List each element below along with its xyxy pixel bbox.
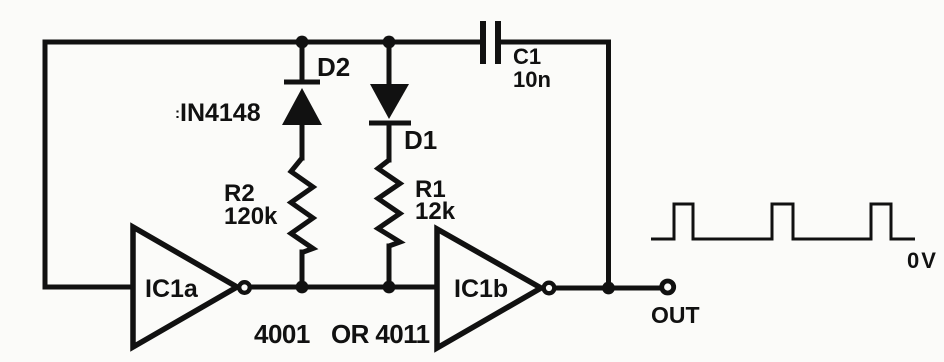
svg-text:D2: D2 xyxy=(317,52,350,82)
wire D1 bottom lead xyxy=(387,123,392,160)
wire right vertical xyxy=(606,42,611,288)
svg-text:IN4148: IN4148 xyxy=(180,99,261,127)
resistor R2 xyxy=(291,158,313,253)
svg-text:C1: C1 xyxy=(513,44,541,69)
svg-text:D1: D1 xyxy=(404,125,437,155)
wire D2 bottom lead xyxy=(300,125,305,158)
svg-text:12k: 12k xyxy=(415,198,456,225)
capacitor C1 xyxy=(483,21,498,64)
diode D1 xyxy=(369,84,411,123)
node E output / C1 junction xyxy=(602,282,615,295)
diode D2 xyxy=(282,82,322,125)
wire IC1a input xyxy=(45,285,131,290)
waveform output pulses xyxy=(651,204,915,239)
wire top right segment xyxy=(501,40,609,45)
wire D1 top lead xyxy=(387,44,392,84)
node C bottom bus / R2 junction xyxy=(296,281,309,294)
wire R1 bottom lead xyxy=(387,246,392,287)
svg-text:4001: 4001 xyxy=(254,319,310,349)
op-amp U1 inverter IC1a xyxy=(133,227,250,347)
svg-text:0V: 0V xyxy=(907,248,938,273)
svg-text:OUT: OUT xyxy=(651,302,700,328)
wire left vertical xyxy=(43,42,48,287)
wire D2 top lead xyxy=(300,44,305,82)
op-amp U2 inverter IC1b xyxy=(437,229,554,348)
resistor R1 xyxy=(378,160,400,246)
OUT terminal xyxy=(662,281,674,293)
svg-text:IC1a: IC1a xyxy=(145,275,199,303)
svg-text:OR 4011: OR 4011 xyxy=(331,319,430,349)
node D bottom bus / R1 junction xyxy=(383,281,396,294)
svg-text:120k: 120k xyxy=(224,203,278,230)
wire IC1a output to IC1b input xyxy=(251,285,435,290)
node B top bus / D1 junction xyxy=(383,36,396,49)
svg-text:IC1b: IC1b xyxy=(454,275,508,303)
wire R2 bottom lead xyxy=(300,252,305,287)
svg-text:10n: 10n xyxy=(513,67,551,92)
wire IC1b output to OUT xyxy=(556,286,658,291)
node A top bus / D2 junction xyxy=(296,36,309,49)
wire top bus xyxy=(45,40,480,45)
